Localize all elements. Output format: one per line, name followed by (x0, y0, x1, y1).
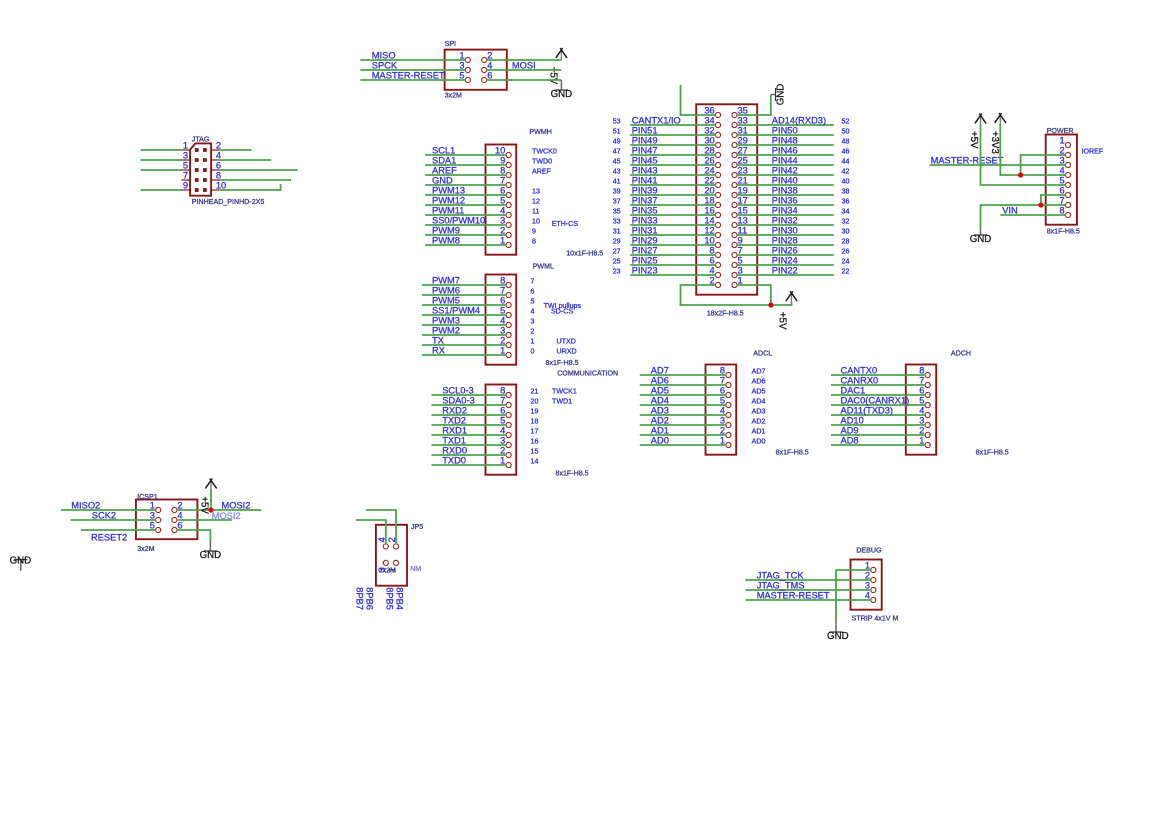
ADCH value label (976, 449, 1009, 457)
svg-text:8PB6: 8PB6 (365, 587, 375, 610)
svg-text:6: 6 (216, 161, 221, 171)
svg-text:25: 25 (738, 156, 748, 166)
JTAG pin stubs (182, 150, 220, 190)
svg-text:PIN26: PIN26 (772, 246, 798, 256)
wire ICSP1 pin6 to GND (177, 529, 211, 541)
svg-text:POWER: POWER (1047, 127, 1074, 135)
svg-text:8: 8 (919, 366, 924, 376)
svg-text:44: 44 (842, 158, 850, 166)
svg-text:1: 1 (150, 501, 155, 511)
wire net PIN35 (630, 206, 716, 216)
svg-text:18: 18 (531, 418, 539, 426)
svg-text:IOREF: IOREF (1082, 148, 1104, 156)
JP5 net label 8PB4 (395, 587, 405, 610)
wire net PIN34 (737, 206, 834, 216)
wire net PIN25 (630, 256, 716, 266)
svg-text:41: 41 (613, 178, 621, 186)
svg-text:3: 3 (531, 318, 535, 326)
svg-text:PIN39: PIN39 (632, 186, 658, 196)
svg-text:8: 8 (720, 366, 725, 376)
wire net SS0/PWM10 (425, 216, 506, 226)
svg-text:8: 8 (500, 386, 505, 396)
wire net PWM6 (422, 286, 506, 296)
wire POWER pin7 to GND (981, 204, 1066, 227)
ADCL pin 3 function label (752, 418, 766, 426)
svg-text:5: 5 (919, 396, 924, 406)
svg-text:GND: GND (200, 550, 222, 561)
wire net PWM13 (425, 186, 506, 196)
wire ICSP1 pin2 to +5V (177, 501, 262, 511)
svg-text:7: 7 (1060, 196, 1065, 206)
svg-text:2: 2 (500, 226, 505, 236)
ground symbol GND (left) (10, 555, 32, 570)
COMMUNICATION pin 3 function label (531, 438, 539, 446)
svg-text:6: 6 (500, 186, 505, 196)
XIO right pin 44 label (842, 158, 850, 166)
svg-text:CANTX1/IO: CANTX1/IO (632, 116, 681, 126)
XIO left pin 39 label (613, 188, 621, 196)
svg-text:AD9: AD9 (841, 426, 859, 436)
svg-text:6: 6 (720, 386, 725, 396)
svg-text:29: 29 (738, 136, 748, 146)
svg-text:ICSP1: ICSP1 (137, 493, 158, 501)
wire net PIN50 (737, 126, 834, 136)
svg-text:2: 2 (487, 51, 492, 61)
JTAG value label (192, 198, 265, 206)
wire net CANRX0 (831, 376, 925, 386)
svg-text:TWD0: TWD0 (532, 158, 552, 166)
svg-text:9: 9 (738, 236, 743, 246)
svg-text:8x1F-H8.5: 8x1F-H8.5 (1047, 228, 1080, 236)
wire net SDA1 (425, 156, 506, 166)
wire net AD7 (640, 366, 726, 376)
COMMUNICATION name label (557, 369, 618, 377)
wire net AD9 (831, 426, 925, 436)
COMMUNICATION pin 7 function label (531, 398, 573, 406)
svg-text:4: 4 (720, 406, 725, 416)
wire +5V riser (ICSP1) (210, 490, 212, 511)
svg-text:15: 15 (531, 448, 539, 456)
svg-text:26: 26 (704, 156, 714, 166)
wire net PIN26 (737, 246, 834, 256)
wire net SDA0-3 (432, 396, 507, 406)
svg-text:21: 21 (738, 176, 748, 186)
svg-text:8x1F-H8.5: 8x1F-H8.5 (976, 449, 1009, 457)
wire net PIN24 (737, 256, 834, 266)
wire net PIN51 (630, 126, 716, 136)
wire ICSP1 pin4 MOSI2 (177, 511, 241, 521)
svg-text:AD4: AD4 (651, 396, 669, 406)
wire JTAG pin4 (220, 159, 272, 161)
wire net PWM3 (422, 316, 506, 326)
svg-text:GND: GND (551, 89, 573, 100)
svg-text:AD10: AD10 (841, 416, 864, 426)
svg-text:0: 0 (531, 348, 535, 356)
svg-text:+5V: +5V (777, 312, 788, 330)
ADCL pin circles (726, 372, 731, 447)
wire net MISO (360, 51, 465, 61)
PWMH pin 8 function label (532, 168, 552, 176)
svg-text:20: 20 (704, 186, 714, 196)
svg-text:10: 10 (495, 146, 505, 156)
svg-text:7: 7 (500, 286, 505, 296)
wire net PWM5 (422, 296, 506, 306)
svg-text:MISO2: MISO2 (71, 501, 100, 511)
svg-text:AD1: AD1 (752, 428, 766, 436)
ADCL pin 1 function label (752, 438, 766, 446)
JP5 net label 8PB7 (354, 587, 364, 610)
svg-text:SPI: SPI (445, 40, 456, 48)
wire net PIN45 (630, 156, 716, 166)
svg-text:MOSI: MOSI (512, 61, 536, 71)
wire net PIN22 (737, 266, 834, 276)
wire net MASTER-RESET (360, 71, 465, 81)
svg-text:6: 6 (1060, 186, 1065, 196)
svg-text:AREF: AREF (532, 168, 552, 176)
wire JTAG pin10 (220, 184, 281, 191)
XIO left pin 37 label (613, 198, 621, 206)
svg-text:NM: NM (410, 565, 421, 573)
svg-text:AD14(RXD3): AD14(RXD3) (772, 116, 826, 126)
svg-text:SCL0-3: SCL0-3 (442, 386, 474, 396)
svg-text:VIN: VIN (1002, 206, 1018, 216)
svg-text:4: 4 (500, 426, 505, 436)
svg-text:7: 7 (500, 176, 505, 186)
svg-text:13: 13 (738, 216, 748, 226)
XIO left pin 33 label (613, 218, 621, 226)
svg-text:AD6: AD6 (651, 376, 669, 386)
wire net DAC1 (831, 386, 925, 396)
svg-text:1: 1 (459, 51, 464, 61)
svg-text:2: 2 (216, 141, 221, 151)
svg-text:+3V3: +3V3 (989, 131, 1000, 154)
svg-text:1: 1 (919, 436, 924, 446)
wire net TXD0 (432, 456, 507, 466)
wire net CANTX0 (831, 366, 925, 376)
svg-text:PIN27: PIN27 (632, 246, 658, 256)
svg-text:13: 13 (532, 188, 540, 196)
svg-text:37: 37 (613, 198, 621, 206)
wire net GND (425, 176, 506, 186)
svg-text:2: 2 (710, 276, 715, 286)
svg-text:AD7: AD7 (651, 366, 669, 376)
svg-text:2: 2 (500, 446, 505, 456)
PWML pin 8 function label (531, 278, 535, 286)
svg-text:2: 2 (177, 501, 182, 511)
svg-text:SDA0-3: SDA0-3 (442, 396, 475, 406)
wire net MOSI (487, 61, 562, 71)
svg-text:2: 2 (500, 336, 505, 346)
svg-text:8x1F-H8.5: 8x1F-H8.5 (546, 359, 579, 367)
svg-text:28: 28 (842, 238, 850, 246)
wire net RXD0 (432, 446, 507, 456)
wire net SCL1 (425, 146, 506, 156)
svg-text:32: 32 (842, 218, 850, 226)
svg-text:AD0: AD0 (752, 438, 766, 446)
wire POWER pin2 to +3V3 (1021, 154, 1066, 175)
svg-text:5: 5 (738, 256, 743, 266)
svg-text:PIN25: PIN25 (632, 256, 658, 266)
svg-text:TXD2: TXD2 (442, 416, 466, 426)
svg-text:8: 8 (710, 246, 715, 256)
svg-text:1: 1 (1060, 136, 1065, 146)
svg-text:18: 18 (704, 196, 714, 206)
wire net PIN29 (630, 236, 716, 246)
svg-text:TXD1: TXD1 (442, 436, 466, 446)
XIO left pin 49 label (613, 138, 621, 146)
svg-text:PIN45: PIN45 (632, 156, 658, 166)
ADCL pin 2 function label (752, 428, 766, 436)
svg-text:CANRX0: CANRX0 (841, 376, 879, 386)
wire net AD2 (640, 416, 726, 426)
svg-text:5: 5 (459, 71, 464, 81)
JTAG pin numbers (183, 141, 226, 191)
svg-text:4: 4 (531, 308, 535, 316)
wire net DAC0(CANRX1) (831, 396, 925, 406)
svg-text:3: 3 (459, 61, 464, 71)
svg-text:22: 22 (842, 268, 850, 276)
wire net AD0 (640, 436, 726, 446)
connector XIO box (18x2F-H8.5) (696, 104, 757, 294)
POWER pin numbers (1060, 136, 1065, 216)
svg-text:19: 19 (738, 186, 748, 196)
XIO pin numbers (704, 106, 747, 286)
svg-text:6: 6 (177, 521, 182, 531)
wire net MASTER-RESET (DEBUG) (745, 591, 871, 601)
svg-text:PIN23: PIN23 (632, 266, 658, 276)
svg-text:10: 10 (704, 236, 714, 246)
POWER pin circles (1065, 142, 1070, 217)
wire JTAG pin3 (141, 159, 182, 161)
svg-text:+5V: +5V (199, 496, 210, 514)
XIO right pin 52 label (842, 118, 850, 126)
svg-text:GND: GND (827, 631, 849, 642)
svg-text:PWM5: PWM5 (432, 296, 460, 306)
wire JTAG pin2 (220, 149, 252, 151)
svg-text:35: 35 (738, 106, 748, 116)
svg-text:PIN41: PIN41 (632, 176, 658, 186)
svg-text:JTAG_TMS: JTAG_TMS (757, 581, 805, 591)
svg-text:PWMH: PWMH (529, 128, 551, 136)
svg-text:PIN36: PIN36 (772, 196, 798, 206)
wire net CANTX1/IO (630, 116, 716, 126)
wire XIO pin35 to GND (737, 95, 771, 116)
power symbol +5V (SPI) (547, 49, 566, 85)
svg-text:ADCL: ADCL (753, 350, 772, 358)
PWMH pin 6 function label (532, 188, 540, 196)
SPI pin numbers (459, 51, 492, 81)
svg-text:SPCK: SPCK (372, 61, 398, 71)
svg-text:8: 8 (1060, 206, 1065, 216)
wire net PIN33 (630, 216, 716, 226)
svg-text:52: 52 (842, 118, 850, 126)
svg-text:3: 3 (150, 511, 155, 521)
junction XIO +5V (768, 302, 773, 307)
svg-text:PIN37: PIN37 (632, 196, 658, 206)
svg-text:MASTER-RESET: MASTER-RESET (757, 591, 830, 601)
svg-text:PIN31: PIN31 (632, 226, 658, 236)
wire JTAG pin9 (141, 189, 182, 191)
svg-text:URXD: URXD (557, 348, 577, 356)
wire net PIN32 (737, 216, 834, 226)
svg-text:SDA1: SDA1 (432, 156, 456, 166)
PWML pin 4 function label (531, 318, 535, 326)
COMMUNICATION pin circles (506, 392, 511, 467)
svg-text:AD7: AD7 (752, 368, 766, 376)
COMMUNICATION pin 8 function label (531, 388, 577, 396)
svg-text:MASTER-RESET: MASTER-RESET (372, 71, 445, 81)
svg-text:24: 24 (842, 258, 850, 266)
junction POWER GND (1038, 202, 1043, 207)
svg-text:3: 3 (919, 416, 924, 426)
svg-text:1: 1 (183, 141, 188, 151)
wire XIO pin36 stub (681, 85, 716, 116)
svg-text:RXD2: RXD2 (442, 406, 467, 416)
wire net PIN42 (737, 166, 834, 176)
wire junction to +5V arrow (771, 303, 792, 306)
wire POWER pin5 to +5V (981, 125, 1066, 186)
svg-text:PIN30: PIN30 (772, 226, 798, 236)
XIO value label (707, 309, 744, 317)
svg-text:PWM6: PWM6 (432, 286, 460, 296)
COMMUNICATION pin 1 function label (531, 458, 539, 466)
wire POWER pin6 (1041, 194, 1066, 205)
svg-text:MOSI2: MOSI2 (222, 501, 251, 511)
JP5 value label (379, 567, 396, 575)
svg-text:30: 30 (704, 136, 714, 146)
svg-text:PWM9: PWM9 (432, 226, 460, 236)
svg-text:AD1: AD1 (651, 426, 669, 436)
XIO left pin 47 label (613, 148, 621, 156)
svg-text:4: 4 (710, 266, 715, 276)
wire net PIN47 (630, 146, 716, 156)
XIO right pin 26 label (842, 248, 850, 256)
svg-text:7: 7 (531, 278, 535, 286)
svg-text:GND: GND (432, 176, 453, 186)
svg-text:8: 8 (532, 238, 536, 246)
svg-text:PIN42: PIN42 (772, 166, 798, 176)
svg-text:36: 36 (704, 106, 714, 116)
PWML pin circles (506, 282, 511, 357)
JP5 pin numbers (377, 537, 397, 572)
ADCL pin 6 function label (752, 388, 766, 396)
svg-text:4: 4 (919, 406, 924, 416)
svg-text:16: 16 (531, 438, 539, 446)
svg-text:JTAG: JTAG (192, 135, 210, 143)
wire net TXD1 (432, 436, 507, 446)
svg-text:8PB7: 8PB7 (354, 587, 364, 610)
svg-text:TXD0: TXD0 (442, 456, 466, 466)
PWMH pin circles (506, 152, 511, 247)
svg-text:50: 50 (842, 128, 850, 136)
svg-text:PWM13: PWM13 (432, 186, 465, 196)
DEBUG pin numbers (865, 561, 870, 601)
wire net RX (422, 346, 506, 356)
XIO right pin 28 label (842, 238, 850, 246)
svg-text:3x2M: 3x2M (137, 545, 154, 553)
svg-text:1: 1 (720, 436, 725, 446)
svg-text:PIN24: PIN24 (772, 256, 798, 266)
wire net AD1 (640, 426, 726, 436)
svg-text:29: 29 (613, 238, 621, 246)
XIO left pin 29 label (613, 238, 621, 246)
svg-text:8x1F-H8.5: 8x1F-H8.5 (556, 469, 589, 477)
svg-text:8PB5: 8PB5 (384, 587, 394, 610)
svg-text:DAC1: DAC1 (841, 386, 866, 396)
svg-text:STRIP 4x1V M: STRIP 4x1V M (852, 615, 899, 623)
svg-text:AD5: AD5 (651, 386, 669, 396)
svg-text:9: 9 (500, 156, 505, 166)
XIO right pin 42 label (842, 168, 850, 176)
wire JTAG pin6 (220, 169, 298, 171)
COMMUNICATION value label (556, 469, 589, 477)
svg-text:PIN22: PIN22 (772, 266, 798, 276)
wire net RXD2 (432, 406, 507, 416)
wire net PWM7 (422, 276, 506, 286)
PWMH pin 5 function label (532, 198, 540, 206)
ground symbol GND (SPI) (551, 80, 573, 100)
PWMH name label (529, 128, 551, 136)
power symbol +5V (POWER) (968, 114, 986, 149)
svg-text:PIN47: PIN47 (632, 146, 658, 156)
svg-text:9: 9 (183, 181, 188, 191)
svg-text:8PB4: 8PB4 (395, 587, 405, 610)
PWML pin numbers (500, 276, 505, 356)
svg-text:9: 9 (532, 228, 536, 236)
ADCL name label (753, 350, 772, 358)
wire net JTAG_TMS (745, 581, 871, 591)
svg-text:4: 4 (500, 316, 505, 326)
svg-text:6: 6 (919, 386, 924, 396)
junction ICSP1 +5V (208, 507, 213, 512)
ADCH pin circles (925, 372, 930, 447)
svg-text:39: 39 (613, 188, 621, 196)
svg-text:4: 4 (500, 206, 505, 216)
svg-text:PWM7: PWM7 (432, 276, 460, 286)
svg-text:11: 11 (532, 208, 539, 216)
svg-text:RXD0: RXD0 (442, 446, 467, 456)
wire net PIN31 (630, 226, 716, 236)
svg-text:RESET2: RESET2 (91, 533, 127, 543)
wire net PIN46 (737, 146, 834, 156)
ICSP1 pin numbers (150, 501, 183, 531)
svg-text:40: 40 (842, 178, 850, 186)
connector COMMUNICATION box (486, 385, 517, 475)
svg-text:16: 16 (704, 206, 714, 216)
svg-text:5: 5 (1060, 176, 1065, 186)
svg-text:DEBUG: DEBUG (856, 546, 881, 554)
svg-text:36: 36 (842, 198, 850, 206)
svg-text:PIN34: PIN34 (772, 206, 798, 216)
svg-text:PIN29: PIN29 (632, 236, 658, 246)
svg-text:2: 2 (865, 571, 870, 581)
svg-text:49: 49 (613, 138, 621, 146)
svg-text:28: 28 (704, 146, 714, 156)
wire net AD5 (640, 386, 726, 396)
wire net PWM2 (422, 326, 506, 336)
wire DEBUG pin1 to GND (836, 569, 871, 620)
XIO right pin 34 label (842, 208, 850, 216)
wire POWER pin4 to +3V3 (1000, 174, 1065, 176)
POWER value label (1047, 228, 1080, 236)
JP5 name label (411, 523, 423, 531)
XIO pin circles (715, 112, 737, 287)
connector ADCH box (906, 365, 936, 455)
wire JTAG pin5 (141, 169, 182, 171)
svg-text:3: 3 (720, 416, 725, 426)
wire XIO pin2 to +5V (680, 284, 771, 306)
XIO right pin 48 label (842, 138, 850, 146)
